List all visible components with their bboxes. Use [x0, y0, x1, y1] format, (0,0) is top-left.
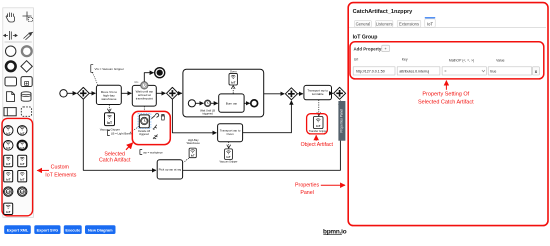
tab General — [355, 20, 372, 27]
tab Listeners — [376, 20, 393, 27]
intermediate event entry — [22, 46, 32, 56]
custom IoT object entry 2 — [18, 171, 27, 182]
svg-text:Export XML: Export XML — [7, 227, 29, 232]
tabs bottom rule — [349, 26, 546, 28]
svg-text:http://127.0.0.1:50: http://127.0.0.1:50 — [356, 70, 385, 74]
svg-text:IoT: IoT — [6, 210, 11, 214]
task2 Wait until wp arrived at transferpoint — [132, 85, 156, 106]
svg-text:triggered: triggered — [139, 133, 149, 136]
svg-text:Selected Catch Artifact: Selected Catch Artifact — [418, 99, 474, 105]
participant/pool entry — [4, 108, 16, 116]
subprocess entry — [21, 77, 32, 87]
sp intermediate catch event Wait Until LB triggered — [204, 100, 211, 107]
svg-text:wp = workpiece: wp = workpiece — [143, 150, 163, 154]
svg-text:IoT: IoT — [191, 155, 195, 158]
input Value — [488, 67, 531, 75]
button Execute — [64, 225, 82, 234]
boundary timer event on task2 — [141, 82, 148, 89]
gateway 1 (parallel split) — [77, 87, 89, 99]
svg-text:General: General — [356, 22, 371, 27]
svg-text:Value: Value — [496, 58, 505, 62]
svg-text:IoT: IoT — [427, 22, 433, 27]
wire catch->burn — [211, 102, 218, 104]
task Pick up wp at wq — [157, 160, 182, 179]
gateway 2 (parallel split) — [167, 87, 179, 99]
svg-text:Properties: Properties — [295, 182, 319, 188]
svg-text:Vacuum Gripper: Vacuum Gripper — [219, 161, 237, 164]
sp task Burn wp — [219, 94, 244, 112]
svg-text:Burn wp: Burn wp — [226, 101, 238, 105]
custom IoT actuator artifact entry — [4, 171, 13, 182]
wire transport oven->gateway3 (up) — [243, 101, 292, 133]
data store entry — [21, 92, 31, 101]
svg-text:IoT: IoT — [231, 80, 236, 84]
svg-text:=: = — [444, 70, 446, 74]
wire subprocess->gateway3 — [264, 93, 285, 95]
svg-text:Add Property: Add Property — [354, 47, 382, 52]
task1 Move VG to high-bay warehouse — [96, 85, 121, 104]
end event entry — [6, 62, 16, 72]
svg-text:attributes.0.interruj: attributes.0.interruj — [399, 70, 429, 74]
global connect tool — [24, 32, 33, 39]
wire gateway1 down to pick up task — [83, 99, 156, 170]
svg-text:Key: Key — [402, 58, 408, 62]
input Key — [397, 67, 440, 75]
wire task1->task2 — [121, 92, 131, 94]
svg-text:New Diagram: New Diagram — [88, 227, 113, 232]
custom IoT catch artifact entry — [4, 187, 13, 196]
sp start event — [188, 100, 195, 107]
custom IoT artifact entry (last row) — [4, 203, 13, 214]
task Transport wp to turntable — [304, 85, 332, 99]
svg-text:Oven: Oven — [230, 69, 237, 73]
context pad: bolt icon — [153, 135, 158, 139]
context pad: connect icon — [153, 125, 157, 130]
lasso tool — [23, 12, 33, 22]
properties panel collapsed tab — [338, 101, 345, 141]
IoT object artifact Transfer Gripper — [313, 117, 323, 129]
wire task2->gateway2 — [156, 92, 165, 94]
data object entry — [7, 92, 15, 102]
start event entry — [6, 46, 16, 56]
svg-text:Execute: Execute — [65, 227, 81, 232]
svg-text:Url: Url — [354, 58, 359, 62]
wire turntable->gateway4 — [332, 92, 333, 94]
svg-text:triggered: triggered — [202, 111, 213, 115]
selected catch artifact Outside LB triggered — [138, 115, 151, 136]
association burn wp -> oven — [232, 86, 234, 94]
custom IoT end event entry (thick) — [18, 141, 27, 151]
svg-text:IoT: IoT — [6, 190, 10, 194]
svg-text:IoT: IoT — [6, 162, 11, 166]
svg-text:IoT: IoT — [20, 177, 25, 181]
select MathOP — [442, 67, 486, 75]
input Url — [353, 67, 395, 75]
custom IoT object artifact entry — [4, 155, 13, 166]
association transport oven -> vacuum gripper artifact 2 — [228, 142, 230, 148]
red highlight box: properties panel — [348, 3, 548, 226]
association high-bay warehouse -> pick up task — [184, 158, 190, 162]
red highlight box: selected catch artifact — [132, 111, 170, 144]
custom IoT intermediate event entry — [17, 126, 27, 136]
custom IoT start event entry — [3, 126, 13, 136]
svg-text:Warehouse: Warehouse — [187, 141, 201, 145]
delete row button — [532, 67, 539, 75]
annotation wp = workpiece — [140, 150, 163, 155]
gateway 3 (parallel join) — [285, 88, 297, 100]
button Export SVG — [34, 225, 60, 234]
svg-text:Object Artifact: Object Artifact — [301, 142, 334, 148]
custom IoT throw artifact entry — [18, 187, 27, 196]
annotation VG = Vacuum Gripper — [91, 65, 124, 85]
svg-text:LB = Light Barrier: LB = Light Barrier — [111, 132, 133, 136]
svg-text:Listeners: Listeners — [376, 22, 393, 27]
red highlight box: object artifact — [307, 114, 328, 134]
svg-text:Oven: Oven — [227, 132, 235, 136]
association task2 -> catch artifact — [143, 106, 145, 112]
wire boundary->terminate end — [144, 73, 153, 82]
wire pick up -> gateway4 (loop) — [183, 101, 341, 171]
add button — [382, 45, 390, 52]
wire gateway3->transport turntable — [297, 93, 303, 95]
svg-text:IoT: IoT — [20, 162, 25, 166]
sp end event — [251, 100, 258, 107]
svg-text:IoT: IoT — [6, 177, 11, 181]
red label Property Setting Of Selected Catch Artifact — [445, 81, 447, 90]
gateway entry — [21, 61, 32, 72]
wire gateway2->subprocess — [178, 92, 182, 94]
svg-text:warehouse: warehouse — [101, 97, 116, 101]
svg-text:MathOP (<, =, >): MathOP (<, =, >) — [449, 58, 474, 62]
svg-text:IoT Group: IoT Group — [353, 35, 378, 41]
gateway 4 (parallel join) — [334, 87, 346, 99]
IoT artifact Vacuum Gripper (bottom) — [225, 149, 233, 160]
association turntable->transfer gripper — [318, 100, 320, 116]
bpmn.io logo — [323, 229, 347, 236]
wire gateway2 down to Transport wp to Oven — [172, 99, 216, 133]
task Transport wp to Oven — [218, 124, 243, 142]
context pad: trash icon — [161, 114, 165, 120]
association task1 -> vacuum gripper artifact — [108, 105, 110, 112]
svg-text:Pick up wp at wq: Pick up wp at wq — [159, 168, 182, 172]
svg-text:Extensions: Extensions — [399, 22, 419, 27]
red arrow to palette box — [37, 169, 49, 171]
space tool — [4, 31, 17, 40]
wire burn->sp end — [244, 102, 250, 104]
svg-text:transferpoint: transferpoint — [136, 97, 153, 101]
start event — [60, 90, 67, 97]
custom IoT sensor artifact entry — [18, 155, 27, 166]
hand tool — [6, 13, 14, 23]
terminate end event — [155, 68, 165, 78]
svg-text:Property Setting Of: Property Setting Of — [422, 92, 469, 98]
association annotation -> catch artifact — [130, 126, 140, 133]
svg-text:Properties Panel: Properties Panel — [339, 109, 343, 133]
svg-text:true: true — [490, 70, 496, 74]
svg-text:turntable: turntable — [312, 92, 324, 96]
selection outline (blue dashed) — [138, 113, 151, 128]
button New Diagram — [85, 225, 116, 234]
svg-text:Export SVG: Export SVG — [37, 227, 59, 232]
svg-text:IoT: IoT — [20, 190, 24, 194]
wire start->gateway1 — [67, 92, 76, 94]
svg-text:Custom: Custom — [51, 165, 70, 171]
svg-text:IoT Elements: IoT Elements — [45, 172, 76, 178]
tab IoT (active) — [425, 17, 435, 27]
IoT artifact Vacuum Gripper (top) — [105, 113, 115, 126]
svg-text:IoT: IoT — [20, 146, 25, 150]
wire sp start->catch — [196, 102, 204, 104]
group entry — [21, 107, 31, 116]
svg-text:Catch Artifact: Catch Artifact — [99, 158, 131, 164]
tab Extensions — [397, 20, 421, 27]
palette separator — [5, 41, 32, 43]
button Export XML — [4, 225, 31, 234]
context pad: wrench icon — [151, 114, 158, 119]
task entry — [5, 77, 17, 86]
custom IoT catch event entry — [3, 141, 13, 151]
svg-text:CatchArtifact_1nzppry: CatchArtifact_1nzppry — [353, 9, 414, 15]
subprocess box — [183, 69, 264, 117]
svg-text:Transfer Gripper: Transfer Gripper — [309, 129, 328, 133]
svg-text:IoT: IoT — [226, 155, 230, 159]
wire gateway1->task1 — [89, 92, 95, 94]
annotation LB = Light Barrier — [108, 131, 133, 136]
svg-text:IoT: IoT — [316, 124, 321, 128]
red highlight box: custom IoT palette section — [2, 118, 33, 215]
svg-text:Panel: Panel — [300, 190, 314, 196]
red highlight box: property row — [350, 42, 544, 79]
palette panel — [3, 8, 34, 218]
svg-text:VG = Vacuum Gripper: VG = Vacuum Gripper — [95, 67, 124, 71]
